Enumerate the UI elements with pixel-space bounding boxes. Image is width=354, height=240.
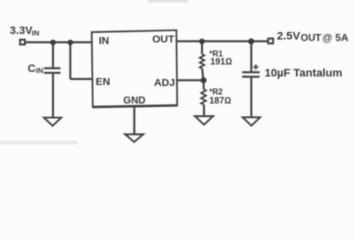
svg-text:3.3V: 3.3V <box>10 25 33 37</box>
wire EN branch horizontal <box>70 78 93 80</box>
ground COUT <box>243 117 261 125</box>
svg-text:191Ω: 191Ω <box>210 57 232 67</box>
wire EN branch vertical <box>69 42 71 79</box>
svg-text:OUT: OUT <box>152 34 175 46</box>
scan artifact bottom-left band <box>0 141 78 145</box>
junction node OUT-COUT <box>248 38 254 44</box>
output terminal square 2.5VOUT <box>268 39 273 44</box>
wire COUT to ground <box>250 78 252 117</box>
svg-text:IN: IN <box>99 35 110 47</box>
svg-text:187Ω: 187Ω <box>209 95 231 105</box>
regulator U1 bottom edge <box>93 105 177 107</box>
wire GND pin <box>133 106 135 134</box>
ground GND pin <box>125 134 143 142</box>
regulator U1 body <box>92 30 178 107</box>
wire COUT drop <box>250 41 252 71</box>
svg-text:GND: GND <box>123 96 145 107</box>
junction node input-EN <box>68 40 74 46</box>
junction node input-CIN <box>50 40 56 46</box>
wire R2 top <box>203 80 205 89</box>
wire CIN drop <box>52 42 54 67</box>
svg-text:C: C <box>28 63 36 75</box>
capacitor COUT tantalum <box>242 71 260 73</box>
wire ADJ <box>177 79 204 81</box>
junction node ADJ-R2 <box>201 77 207 83</box>
wire R2 to ground <box>203 104 205 116</box>
wire CIN to ground <box>52 74 54 117</box>
capacitor CIN <box>44 67 61 69</box>
ground R2 <box>195 116 213 125</box>
svg-text:ADJ: ADJ <box>154 77 175 89</box>
resistor R1 <box>200 54 205 68</box>
svg-text:IN: IN <box>32 29 40 38</box>
svg-text:2.5V: 2.5V <box>277 31 301 43</box>
scan artifact top smudge <box>148 0 188 3</box>
input terminal square 3.3VIN <box>20 40 25 45</box>
resistor R2 <box>201 89 206 104</box>
svg-text:@: @ <box>322 33 332 44</box>
wire R1 bottom <box>202 69 203 81</box>
svg-text:OUT: OUT <box>301 33 322 44</box>
svg-text:10µF Tantalum: 10µF Tantalum <box>265 67 343 79</box>
svg-text:IN: IN <box>36 66 44 75</box>
ground CIN <box>44 118 61 126</box>
svg-text:EN: EN <box>96 76 111 88</box>
plus sign COUT <box>253 66 258 68</box>
junction node OUT-R1 <box>199 39 205 45</box>
wire R1 top <box>201 41 203 54</box>
wire input rail <box>26 41 93 43</box>
svg-text:5A: 5A <box>335 33 349 44</box>
wire OUT rail <box>177 40 268 42</box>
